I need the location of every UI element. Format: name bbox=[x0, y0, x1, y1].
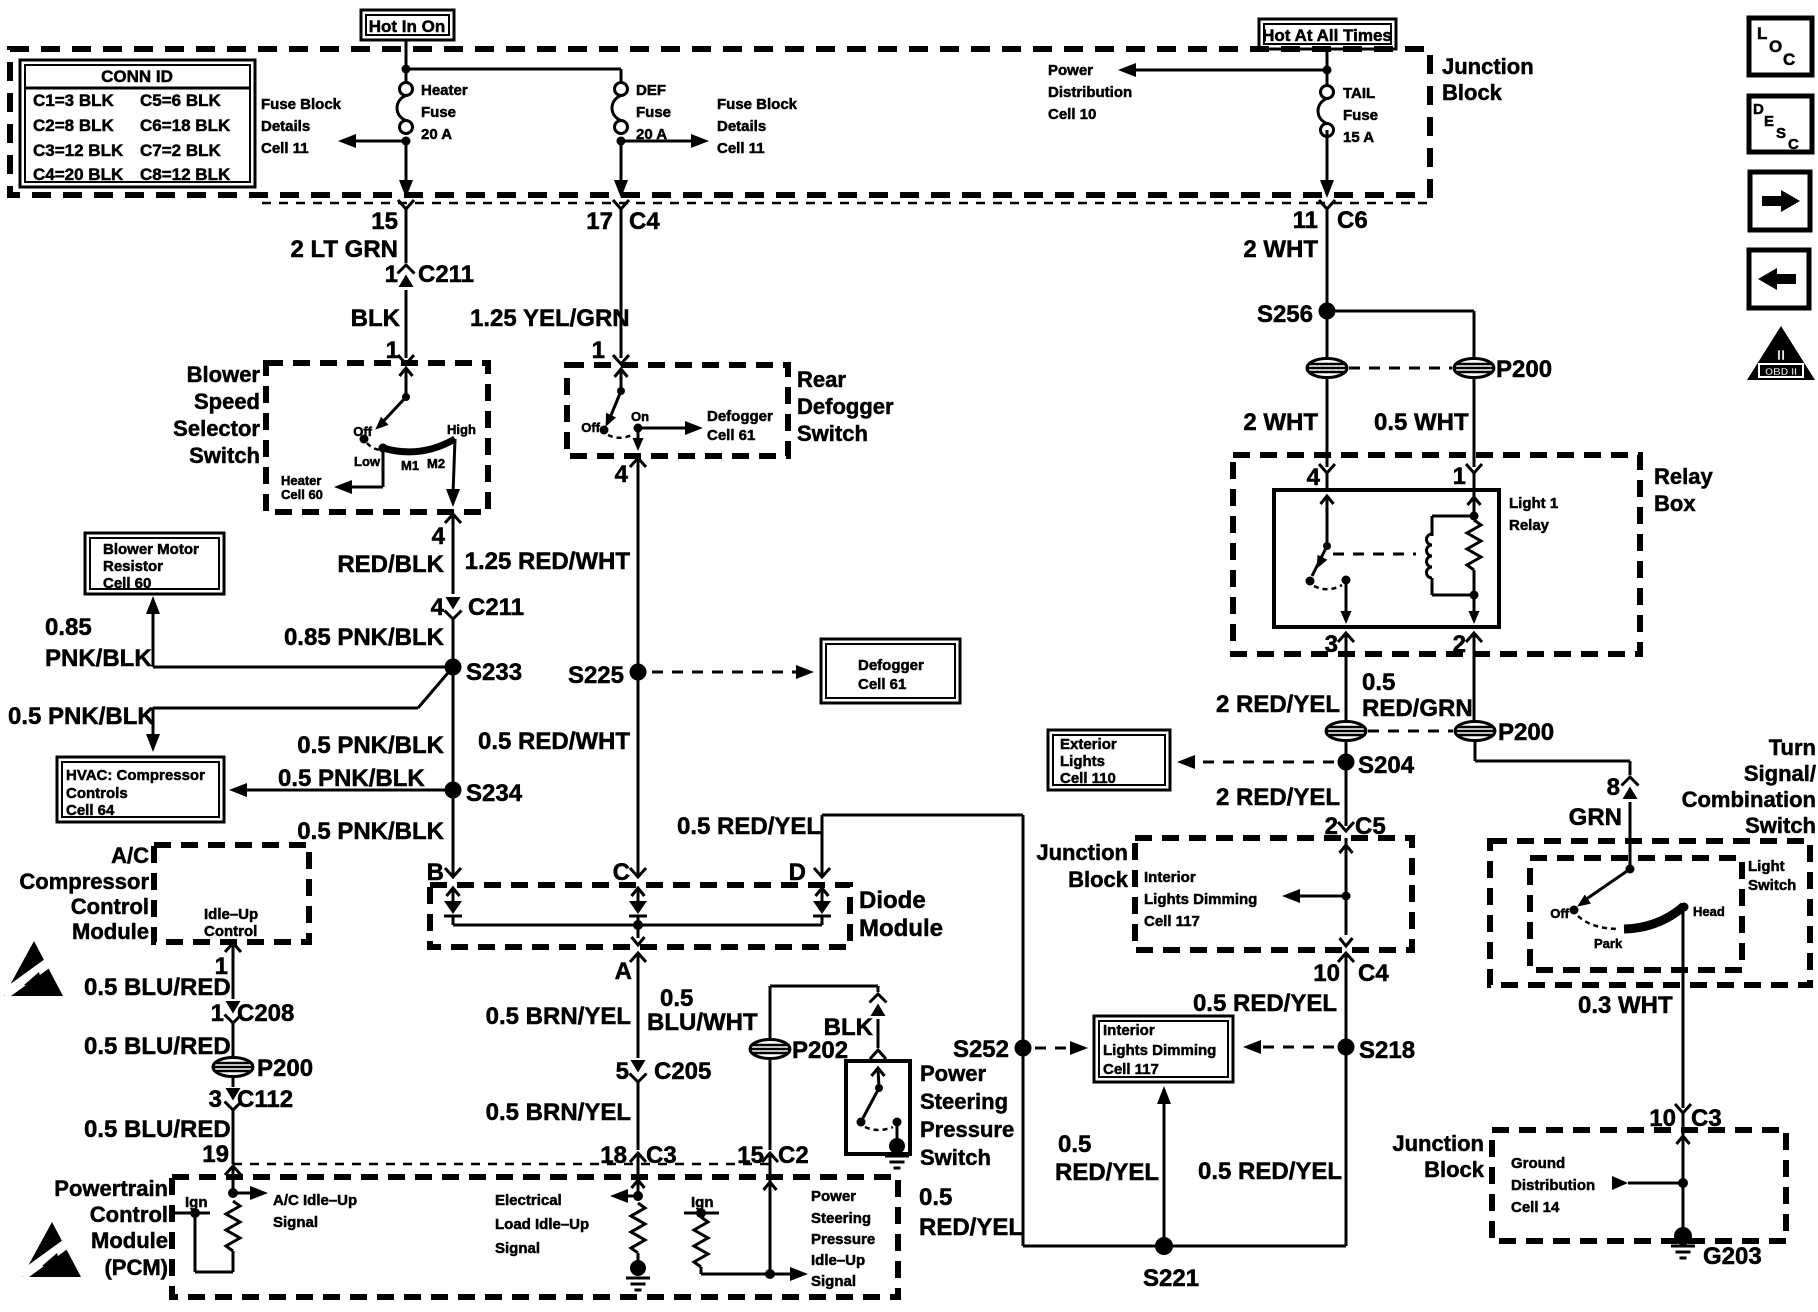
svg-text:Details: Details bbox=[717, 118, 766, 135]
svg-text:GRN: GRN bbox=[1569, 804, 1622, 831]
label 0.5 RED/YEL (S221 left) bbox=[1055, 1131, 1159, 1186]
label 2 RED/YEL 2 bbox=[1216, 784, 1340, 811]
icon DESC bbox=[1749, 96, 1812, 153]
svg-text:Cell 117: Cell 117 bbox=[1144, 913, 1200, 930]
svg-text:Defogger: Defogger bbox=[707, 408, 773, 425]
svg-text:0.5 PNK/BLK: 0.5 PNK/BLK bbox=[297, 732, 444, 759]
svg-text:0.5 BLU/RED: 0.5 BLU/RED bbox=[84, 1033, 231, 1060]
svg-text:RED/YEL: RED/YEL bbox=[1055, 1159, 1159, 1186]
wire 1.25 RED/WHT bbox=[465, 458, 638, 672]
label Fuse Block Details Cell 11 (left) bbox=[261, 96, 342, 157]
relay box dashed bbox=[1233, 455, 1640, 654]
svg-text:Fuse: Fuse bbox=[1343, 107, 1378, 124]
wire 0.5 PNK/BLK S233-S234 bbox=[297, 667, 453, 790]
svg-text:C2=8 BLK: C2=8 BLK bbox=[33, 116, 114, 135]
splice S234 bbox=[445, 780, 523, 807]
svg-text:Heater: Heater bbox=[421, 82, 468, 99]
svg-text:5: 5 bbox=[616, 1058, 629, 1085]
svg-text:2 WHT: 2 WHT bbox=[1243, 236, 1318, 263]
pin 17 C4 seat bbox=[586, 200, 660, 235]
svg-text:P200: P200 bbox=[257, 1055, 313, 1082]
svg-text:0.85: 0.85 bbox=[45, 614, 92, 641]
wire 2 LT GRN bbox=[290, 209, 406, 263]
svg-text:19: 19 bbox=[202, 1141, 229, 1168]
fuse DEF Fuse 20 A bbox=[612, 82, 671, 143]
svg-text:15: 15 bbox=[737, 1142, 764, 1169]
svg-text:Power: Power bbox=[920, 1061, 986, 1086]
svg-text:Cell 117: Cell 117 bbox=[1103, 1061, 1159, 1078]
svg-text:15: 15 bbox=[371, 208, 398, 235]
relay switch bbox=[1306, 496, 1352, 624]
svg-text:11: 11 bbox=[1293, 207, 1318, 234]
svg-text:8: 8 bbox=[1607, 774, 1620, 801]
svg-text:Cell 110: Cell 110 bbox=[1060, 770, 1116, 787]
diode module output A bbox=[615, 925, 646, 985]
svg-text:P200: P200 bbox=[1496, 356, 1552, 383]
wire DEF fuse down bbox=[614, 141, 628, 198]
wire 0.5 PNK/BLK to diode B bbox=[297, 790, 461, 886]
svg-text:10: 10 bbox=[1313, 960, 1340, 987]
svg-text:Low: Low bbox=[354, 454, 381, 469]
svg-text:PNK/BLK: PNK/BLK bbox=[45, 645, 152, 672]
svg-text:Fuse Block: Fuse Block bbox=[717, 96, 798, 113]
label 0.5 RED/YEL (right of PCM) bbox=[919, 1184, 1023, 1241]
svg-text:3: 3 bbox=[1325, 631, 1338, 658]
svg-text:1: 1 bbox=[385, 261, 398, 288]
connector C211 pin 4 bbox=[431, 594, 524, 621]
svg-text:Box: Box bbox=[1654, 491, 1696, 516]
svg-text:C2: C2 bbox=[778, 1142, 809, 1169]
wire 0.5 RED/WHT bbox=[478, 672, 646, 886]
svg-text:Module: Module bbox=[72, 919, 149, 944]
svg-text:1: 1 bbox=[211, 1000, 224, 1027]
svg-text:Head: Head bbox=[1693, 904, 1725, 919]
label Diode Module bbox=[859, 887, 943, 942]
wire BLK to power steering switch bbox=[824, 986, 887, 1059]
rear defogger switch box bbox=[567, 365, 788, 456]
arrow S234 to HVAC bbox=[229, 765, 453, 797]
relay pin 1 seat bbox=[1453, 463, 1482, 490]
svg-text:Fuse: Fuse bbox=[636, 104, 671, 121]
svg-text:Block: Block bbox=[1442, 80, 1503, 105]
label Power Steering Pressure Switch bbox=[920, 1061, 1014, 1170]
svg-text:G203: G203 bbox=[1703, 1243, 1762, 1270]
wire RED/BLK bbox=[337, 514, 453, 594]
wire S256 branch right bbox=[1327, 311, 1474, 358]
wire 0.5 BLU/RED 3 bbox=[84, 1110, 233, 1168]
svg-text:0.3 WHT: 0.3 WHT bbox=[1578, 992, 1673, 1019]
svg-text:Light 1: Light 1 bbox=[1509, 495, 1558, 512]
svg-text:18: 18 bbox=[600, 1142, 627, 1169]
wire 0.3 WHT bbox=[1578, 907, 1683, 1108]
PCM box bbox=[172, 1177, 898, 1297]
splice S218 bbox=[1338, 1037, 1416, 1064]
wire 0.5 BRN/YEL bbox=[486, 953, 638, 1058]
svg-text:Junction: Junction bbox=[1442, 54, 1534, 79]
svg-text:C: C bbox=[1783, 50, 1795, 69]
svg-text:Selector: Selector bbox=[173, 416, 260, 441]
svg-text:S218: S218 bbox=[1359, 1037, 1415, 1064]
svg-text:0.5 RED/YEL: 0.5 RED/YEL bbox=[1193, 990, 1337, 1017]
svg-text:Details: Details bbox=[261, 118, 310, 135]
arrow to fuse block details (left) bbox=[338, 134, 411, 148]
svg-text:Hot In On: Hot In On bbox=[369, 17, 445, 36]
svg-text:RED/YEL: RED/YEL bbox=[919, 1214, 1023, 1241]
wire heater fuse down bbox=[399, 141, 413, 198]
dashed link P200 pair bbox=[1349, 367, 1452, 370]
svg-text:C4: C4 bbox=[1358, 960, 1389, 987]
svg-text:0.5: 0.5 bbox=[1058, 1131, 1091, 1158]
svg-text:2 WHT: 2 WHT bbox=[1243, 409, 1318, 436]
svg-text:S: S bbox=[1776, 125, 1786, 142]
pin 11 C6 seat bbox=[1293, 200, 1368, 234]
svg-text:Relay: Relay bbox=[1509, 517, 1550, 534]
svg-text:OBD II: OBD II bbox=[1765, 366, 1797, 378]
icon OBD II triangle bbox=[1747, 326, 1815, 380]
label Fuse Block Details Cell 11 (right) bbox=[717, 96, 798, 157]
svg-text:II: II bbox=[1777, 347, 1785, 364]
svg-text:0.5: 0.5 bbox=[1362, 669, 1395, 696]
label Rear Defogger Switch bbox=[797, 367, 894, 446]
svg-text:C6=18 BLK: C6=18 BLK bbox=[140, 116, 231, 135]
svg-text:Defogger: Defogger bbox=[797, 394, 894, 419]
label 0.5 BLU/WHT bbox=[647, 985, 758, 1036]
dashed arrow S225 to defogger cell bbox=[652, 665, 814, 679]
svg-text:E: E bbox=[1764, 113, 1774, 130]
svg-text:2 RED/YEL: 2 RED/YEL bbox=[1216, 784, 1340, 811]
svg-text:1.25 YEL/GRN: 1.25 YEL/GRN bbox=[470, 305, 630, 332]
wire 0.5 RED/YEL (diode D to S221) bbox=[677, 813, 1023, 1246]
junction block (top) bbox=[10, 49, 1430, 195]
wire 2 RED/YEL bbox=[1216, 654, 1346, 721]
diode B bbox=[444, 888, 462, 925]
svg-text:Resistor: Resistor bbox=[103, 558, 163, 575]
svg-text:C: C bbox=[613, 859, 630, 886]
light switch box bbox=[1530, 858, 1742, 970]
svg-text:Module: Module bbox=[91, 1228, 168, 1253]
heater cell 60 arrow bbox=[281, 448, 383, 502]
svg-text:BLU/WHT: BLU/WHT bbox=[647, 1009, 758, 1036]
svg-text:S252: S252 bbox=[953, 1036, 1009, 1063]
svg-text:P202: P202 bbox=[792, 1037, 848, 1064]
light switch internals bbox=[1550, 865, 1725, 952]
svg-text:Controls: Controls bbox=[66, 785, 128, 802]
svg-text:S225: S225 bbox=[568, 662, 624, 689]
connector C205 pin 5 bbox=[616, 1058, 712, 1085]
relay coil bbox=[1427, 516, 1475, 595]
svg-text:Power: Power bbox=[1048, 62, 1093, 79]
relay pin 3 seat bbox=[1325, 631, 1354, 658]
svg-text:0.5 PNK/BLK: 0.5 PNK/BLK bbox=[278, 765, 425, 792]
svg-text:Block: Block bbox=[1068, 867, 1129, 892]
svg-text:On: On bbox=[631, 409, 649, 424]
svg-text:C112: C112 bbox=[237, 1086, 293, 1113]
label A/C Compressor Control Module bbox=[19, 843, 149, 944]
svg-text:Cell 10: Cell 10 bbox=[1048, 106, 1096, 123]
svg-text:Signal: Signal bbox=[495, 1240, 540, 1257]
svg-text:4: 4 bbox=[1307, 464, 1321, 491]
svg-text:0.5 BLU/RED: 0.5 BLU/RED bbox=[84, 1116, 231, 1143]
svg-text:0.5 BLU/RED: 0.5 BLU/RED bbox=[84, 974, 231, 1001]
arrow to power distribution bbox=[1118, 63, 1327, 77]
svg-text:Cell 61: Cell 61 bbox=[707, 427, 755, 444]
PCM electrical load idle-up bbox=[495, 1166, 650, 1290]
svg-text:Electrical: Electrical bbox=[495, 1192, 562, 1209]
svg-text:15 A: 15 A bbox=[1343, 129, 1374, 146]
svg-text:Fuse Block: Fuse Block bbox=[261, 96, 342, 113]
connector face line C4/C6 bbox=[262, 202, 1430, 205]
ESD symbol 2 bbox=[19, 1222, 81, 1280]
power steering pressure switch box bbox=[846, 1061, 910, 1154]
svg-text:Distribution: Distribution bbox=[1048, 84, 1132, 101]
svg-text:3: 3 bbox=[209, 1086, 222, 1113]
svg-text:C3: C3 bbox=[646, 1142, 677, 1169]
svg-text:4: 4 bbox=[432, 523, 446, 550]
svg-text:C5=6 BLK: C5=6 BLK bbox=[140, 91, 221, 110]
svg-text:D: D bbox=[789, 859, 806, 886]
label Hot In On bbox=[361, 10, 454, 40]
dashed arrow S252 to interior lights dimming bbox=[1035, 1041, 1088, 1055]
wire 0.5 WHT bbox=[1374, 378, 1474, 467]
svg-text:Cell 60: Cell 60 bbox=[281, 487, 323, 502]
svg-text:Load Idle–Up: Load Idle–Up bbox=[495, 1216, 589, 1233]
svg-text:0.5 RED/YEL: 0.5 RED/YEL bbox=[1198, 1158, 1342, 1185]
svg-text:Control: Control bbox=[71, 894, 149, 919]
svg-text:B: B bbox=[427, 859, 444, 886]
svg-text:Module: Module bbox=[859, 915, 943, 942]
icon LOC bbox=[1749, 18, 1812, 75]
svg-text:Control: Control bbox=[204, 923, 257, 940]
svg-text:0.85 PNK/BLK: 0.85 PNK/BLK bbox=[284, 624, 445, 651]
dashed arrow S204 to exterior lights bbox=[1177, 755, 1334, 769]
dashed link P200 mid pair bbox=[1368, 730, 1453, 733]
svg-text:S204: S204 bbox=[1358, 752, 1415, 779]
diode D bbox=[813, 888, 831, 925]
svg-text:C211: C211 bbox=[418, 261, 474, 288]
wire relay pin2 to light switch bbox=[1475, 741, 1630, 775]
ground G203 bbox=[1671, 1227, 1762, 1270]
connector C112 pin 3 bbox=[209, 1086, 293, 1113]
svg-text:4: 4 bbox=[431, 594, 445, 621]
wire TAIL fuse down bbox=[1320, 130, 1334, 198]
svg-text:C211: C211 bbox=[468, 594, 524, 621]
svg-text:Switch: Switch bbox=[920, 1145, 991, 1170]
blower speed selector switch box bbox=[266, 363, 488, 512]
ESD symbol 1 bbox=[1, 941, 63, 999]
svg-text:S233: S233 bbox=[466, 659, 522, 686]
svg-text:17: 17 bbox=[586, 208, 613, 235]
svg-text:0.5 BRN/YEL: 0.5 BRN/YEL bbox=[486, 1099, 631, 1126]
arrow to fuse block details (right) bbox=[617, 134, 710, 148]
svg-text:TAIL: TAIL bbox=[1343, 85, 1375, 102]
svg-text:S256: S256 bbox=[1257, 301, 1313, 328]
svg-text:C7=2 BLK: C7=2 BLK bbox=[140, 141, 221, 160]
svg-text:Powertrain: Powertrain bbox=[54, 1176, 168, 1201]
label Relay Box bbox=[1654, 464, 1713, 516]
pin 2 C5 seat bbox=[1325, 813, 1386, 840]
splice S221 bbox=[1143, 1237, 1199, 1292]
svg-text:Combination: Combination bbox=[1682, 787, 1816, 812]
svg-text:Power: Power bbox=[811, 1188, 856, 1205]
svg-text:Off: Off bbox=[581, 420, 600, 435]
power steering switch internals bbox=[857, 1068, 910, 1168]
svg-text:Cell 11: Cell 11 bbox=[717, 140, 765, 157]
svg-text:Signal: Signal bbox=[273, 1214, 318, 1231]
label 0.5 RED/GRN bbox=[1362, 669, 1473, 722]
relay control dashed line bbox=[1333, 553, 1416, 556]
svg-text:Park: Park bbox=[1594, 936, 1623, 951]
svg-text:4: 4 bbox=[615, 461, 629, 488]
blower switch output wire bbox=[432, 439, 461, 550]
diode bus bbox=[453, 920, 822, 930]
svg-text:Pressure: Pressure bbox=[811, 1231, 875, 1248]
defogger switch entry seat bbox=[613, 355, 629, 364]
relay pin 4 seat bbox=[1307, 464, 1335, 491]
arrow S221 to interior lights dimming box bbox=[1157, 1086, 1171, 1246]
wire to blower motor resistor bbox=[45, 596, 453, 672]
svg-text:CONN ID: CONN ID bbox=[101, 67, 173, 86]
pin 18 C3 seat bbox=[600, 1142, 676, 1169]
svg-text:Signal/: Signal/ bbox=[1744, 761, 1816, 786]
svg-text:Fuse: Fuse bbox=[421, 104, 456, 121]
wire BLK bbox=[351, 290, 406, 364]
svg-text:(PCM): (PCM) bbox=[104, 1255, 168, 1280]
A/C compressor control module box bbox=[154, 845, 309, 942]
label Light Switch bbox=[1748, 858, 1796, 894]
svg-text:0.5: 0.5 bbox=[660, 985, 693, 1012]
svg-text:Blower Motor: Blower Motor bbox=[103, 541, 199, 558]
svg-text:C6: C6 bbox=[1337, 207, 1368, 234]
connector P200 right (mid pair) bbox=[1455, 719, 1554, 746]
junction block 3 inner text bbox=[1511, 1155, 1595, 1216]
wire 2 WHT top bbox=[1243, 209, 1327, 358]
svg-text:Idle–Up: Idle–Up bbox=[204, 906, 258, 923]
wire 0.5 BRN/YEL 2 bbox=[486, 1082, 638, 1150]
defogger switch internals bbox=[581, 369, 649, 438]
svg-text:0.5 RED/WHT: 0.5 RED/WHT bbox=[478, 728, 630, 755]
wire 0.5 PNK/BLK to HVAC bbox=[8, 667, 453, 752]
svg-text:Blower: Blower bbox=[187, 362, 261, 387]
svg-text:Idle–Up: Idle–Up bbox=[811, 1252, 865, 1269]
splice S233 bbox=[445, 659, 523, 687]
svg-text:C205: C205 bbox=[654, 1058, 711, 1085]
svg-text:Turn: Turn bbox=[1769, 735, 1816, 760]
PCM connector face line bbox=[233, 1163, 771, 1166]
box Interior Lights Dimming Cell 117 bbox=[1094, 1016, 1233, 1082]
svg-text:Interior: Interior bbox=[1144, 869, 1196, 886]
svg-text:High: High bbox=[447, 422, 476, 437]
splice S225 bbox=[568, 662, 647, 689]
svg-text:1.25 RED/WHT: 1.25 RED/WHT bbox=[465, 548, 631, 575]
svg-text:O: O bbox=[1769, 37, 1782, 56]
svg-text:Switch: Switch bbox=[797, 421, 868, 446]
fuse Heater Fuse 20 A bbox=[397, 82, 468, 143]
wire 0.5 RED/YEL (below 10 C4) bbox=[1193, 990, 1337, 1017]
P202 drop wire bbox=[770, 986, 878, 1040]
box Defogger Cell 61 bbox=[821, 639, 960, 703]
svg-text:Junction: Junction bbox=[1392, 1131, 1484, 1156]
svg-text:S234: S234 bbox=[466, 780, 523, 807]
fuse TAIL Fuse 15 A bbox=[1318, 85, 1378, 146]
wire 0.5 RED/GRN bbox=[1473, 654, 1476, 721]
connector P200 right (top pair) bbox=[1454, 356, 1552, 383]
connector P200 left (top pair) bbox=[1307, 359, 1347, 378]
svg-text:0.5 PNK/BLK: 0.5 PNK/BLK bbox=[297, 818, 444, 845]
svg-text:Lights Dimming: Lights Dimming bbox=[1144, 891, 1257, 908]
wire from Hot In On bbox=[402, 40, 622, 83]
svg-text:Signal: Signal bbox=[811, 1273, 856, 1290]
splice S204 bbox=[1338, 741, 1415, 826]
defogger switch output bbox=[615, 428, 646, 488]
svg-text:Compressor: Compressor bbox=[19, 869, 149, 894]
svg-text:S221: S221 bbox=[1143, 1265, 1199, 1292]
svg-text:Control: Control bbox=[90, 1202, 168, 1227]
svg-text:Lights: Lights bbox=[1060, 753, 1105, 770]
diode module box bbox=[430, 885, 850, 947]
svg-text:Ground: Ground bbox=[1511, 1155, 1565, 1172]
box Exterior Lights Cell 110 bbox=[1048, 730, 1170, 790]
box HVAC Compressor Controls Cell 64 bbox=[57, 757, 224, 822]
svg-text:Steering: Steering bbox=[920, 1089, 1008, 1114]
wire from Hot At All Times bbox=[1323, 49, 1332, 86]
svg-text:C1=3 BLK: C1=3 BLK bbox=[33, 91, 114, 110]
svg-text:Off: Off bbox=[1550, 906, 1569, 921]
svg-text:C4: C4 bbox=[629, 208, 660, 235]
svg-text:1: 1 bbox=[592, 337, 605, 364]
A/C module output seat bbox=[215, 943, 241, 980]
svg-text:C: C bbox=[1788, 136, 1799, 153]
svg-text:Switch: Switch bbox=[1748, 877, 1796, 894]
svg-text:HVAC: Compressor: HVAC: Compressor bbox=[66, 767, 205, 784]
defogger cell arrow inside switch bbox=[638, 408, 773, 444]
svg-text:Diode: Diode bbox=[859, 887, 926, 914]
pin 19 seat bbox=[225, 1166, 241, 1175]
svg-text:Off: Off bbox=[353, 424, 372, 439]
splice S256 bbox=[1257, 301, 1336, 328]
svg-text:2 LT GRN: 2 LT GRN bbox=[290, 236, 398, 263]
junction block 2 box bbox=[1135, 838, 1412, 950]
svg-text:2: 2 bbox=[1453, 631, 1466, 658]
svg-text:C208: C208 bbox=[237, 1000, 294, 1027]
svg-text:Cell 60: Cell 60 bbox=[103, 575, 151, 592]
wire 0.5 BLU/RED 1 bbox=[84, 943, 233, 1001]
svg-text:2 RED/YEL: 2 RED/YEL bbox=[1216, 691, 1340, 718]
svg-text:20 A: 20 A bbox=[421, 126, 452, 143]
svg-text:0.5 PNK/BLK: 0.5 PNK/BLK bbox=[8, 703, 155, 730]
svg-text:Cell 61: Cell 61 bbox=[858, 676, 906, 693]
blower switch internals bbox=[353, 368, 476, 473]
label Junction Block 2 bbox=[1036, 840, 1128, 892]
relay Light 1 Relay box bbox=[1274, 490, 1558, 627]
svg-text:L: L bbox=[1757, 24, 1767, 43]
svg-text:Switch: Switch bbox=[1745, 813, 1816, 838]
svg-text:A/C: A/C bbox=[111, 843, 149, 868]
svg-text:C8=12 BLK: C8=12 BLK bbox=[140, 165, 231, 184]
svg-text:BLK: BLK bbox=[351, 305, 401, 332]
svg-text:Cell 14: Cell 14 bbox=[1511, 1199, 1560, 1216]
wire 2 WHT lower bbox=[1243, 378, 1327, 467]
wire P202 to pin 15 C2 bbox=[737, 1059, 808, 1169]
svg-text:D: D bbox=[1753, 101, 1764, 118]
svg-text:0.5 BRN/YEL: 0.5 BRN/YEL bbox=[486, 1003, 631, 1030]
svg-text:Lights Dimming: Lights Dimming bbox=[1103, 1042, 1216, 1059]
junction block 3 box bbox=[1492, 1130, 1786, 1241]
PCM power steering idle-up bbox=[684, 1166, 875, 1290]
label Power Distribution Cell 10 bbox=[1048, 62, 1132, 123]
svg-text:P200: P200 bbox=[1498, 719, 1554, 746]
label Powertrain Control Module (PCM) bbox=[54, 1176, 168, 1280]
connector P200 (left) bbox=[213, 1055, 313, 1087]
